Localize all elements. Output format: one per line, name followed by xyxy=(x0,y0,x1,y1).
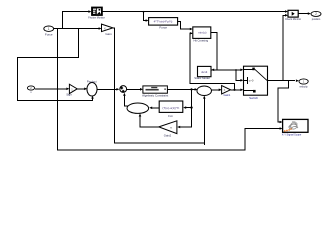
svg-text:1: 1 xyxy=(48,27,50,31)
wire to switch input 1 xyxy=(217,69,241,71)
arrowhead up into product P3 bottom xyxy=(139,114,142,117)
svg-text:Switch: Switch xyxy=(249,96,258,100)
wire top line scope-out to monitor xyxy=(102,11,286,13)
gain G4 triangle flipped xyxy=(159,121,177,138)
wire function F1 out down xyxy=(211,33,217,70)
product P2 ellipse xyxy=(197,86,212,96)
svg-text:Gain1: Gain1 xyxy=(223,93,230,97)
wire tap into Fcn right side xyxy=(186,107,192,109)
block Fcn xyxy=(159,101,183,118)
wire product P3 to sum S1 bottom xyxy=(124,95,128,106)
arrowhead into product P1 xyxy=(84,88,87,91)
svg-text:Force: Force xyxy=(159,26,167,30)
wire product P1 to sum S1 xyxy=(97,88,117,90)
wire product P2 to gain G3 xyxy=(212,89,220,91)
arrowhead into Out2 oval xyxy=(308,12,311,15)
arrowhead into switch input 1 xyxy=(240,69,243,72)
wire branch down to switch control input xyxy=(236,70,241,81)
arrowhead into switch input 3 xyxy=(240,89,243,92)
svg-text:Check Monitor: Check Monitor xyxy=(285,18,301,21)
arrowhead into gain G3 xyxy=(219,89,222,92)
gain G2 triangle xyxy=(66,84,77,96)
arrowhead into switch control input xyxy=(240,79,243,82)
svg-text:v: v xyxy=(30,91,32,94)
wire gain G4 out to product P3 bottom xyxy=(140,116,159,127)
port In1 oval xyxy=(44,26,54,36)
svg-text:Sign: Sign xyxy=(66,93,72,97)
arrowhead into gain G2 xyxy=(66,88,69,91)
arrowhead left into gain G4 xyxy=(177,126,180,129)
svg-text:position: position xyxy=(312,18,321,21)
wire switch out to Out1 xyxy=(268,80,296,82)
wire gain G2 to product P1 xyxy=(77,88,84,90)
svg-text:u>0: u>0 xyxy=(249,79,254,83)
svg-text:Fcn: Fcn xyxy=(168,114,173,118)
svg-text:velocity: velocity xyxy=(299,86,308,89)
svg-text:Friction Monitor: Friction Monitor xyxy=(88,17,105,20)
junction dot main line branch down xyxy=(190,88,192,90)
svg-text:Gain2: Gain2 xyxy=(164,133,172,137)
wire branch In1 to product P1 bottom xyxy=(18,29,93,101)
block memory inside subsystem xyxy=(194,66,217,80)
wire Fcn out to product P3 xyxy=(152,107,160,109)
arrowhead left into Fcn right xyxy=(183,106,186,109)
arrowhead into algebraic constraint xyxy=(140,88,143,91)
wire source block out to function F1 input 1 xyxy=(178,22,191,30)
svg-text:4*T*sin(4*pi*t): 4*T*sin(4*pi*t) xyxy=(154,20,173,24)
svg-text:K: K xyxy=(104,26,106,30)
block switch xyxy=(244,66,268,100)
arrowhead left into product P3 right xyxy=(149,107,152,110)
arrowhead into monitor input 2 xyxy=(285,14,288,17)
block scope (bars icon) xyxy=(88,7,105,19)
port In2 oval xyxy=(27,86,34,94)
wire gain G3 to switch input 3 xyxy=(231,89,241,91)
svg-text:Gain: Gain xyxy=(105,32,112,36)
svg-text:Product: Product xyxy=(87,79,97,83)
gain G1 triangle xyxy=(102,24,113,36)
svg-text:Hit Crossing: Hit Crossing xyxy=(193,38,208,42)
svg-text:Force: Force xyxy=(45,32,53,36)
arrowhead into source block xyxy=(146,19,149,22)
wire branch down into source block xyxy=(144,12,147,21)
wire monitor out to Out2 xyxy=(298,13,308,15)
wire into scope block xyxy=(63,12,89,29)
product P1 ellipse xyxy=(87,79,97,96)
wire branch down to gain G4 input xyxy=(180,89,192,127)
sum S1 circle xyxy=(120,86,127,93)
arrowhead up into sum S1 bottom xyxy=(123,93,126,96)
arrowhead into scope block xyxy=(88,10,91,13)
wire branch up to monitor input 2 xyxy=(283,15,286,80)
product P3 ellipse xyxy=(127,103,149,113)
arrowhead into sum S1 xyxy=(116,88,119,91)
arrowhead into Out1 oval xyxy=(296,79,299,82)
block XY scope xyxy=(282,119,308,136)
wire branch down to XY scope input 1 xyxy=(278,81,289,123)
junction dot Fcn tap xyxy=(190,106,192,108)
svg-text:Static Model: Static Model xyxy=(194,76,210,80)
port Out2 oval xyxy=(311,11,321,21)
svg-text:Algebraic Constraint: Algebraic Constraint xyxy=(142,94,168,98)
arrowhead into XY scope input 1 xyxy=(280,121,283,124)
arrowhead into XY scope input 2 xyxy=(280,127,283,130)
wire sum S1 to algebraic constraint xyxy=(127,88,141,90)
wire gain G3 feedback loop to function F1 input 2 xyxy=(190,33,235,90)
junction dot gain G3 out branch xyxy=(233,89,235,91)
arrowhead into function F1 input 1 xyxy=(190,28,193,31)
wire In2 to gain G2 xyxy=(35,88,67,90)
wire In1 to gain G1 xyxy=(54,28,99,30)
gain G3 triangle xyxy=(222,86,231,97)
svg-text:(T(u)-u(1))*K: (T(u)-u(1))*K xyxy=(162,106,179,110)
arrowhead up into product P1 bottom xyxy=(91,96,94,99)
block source expression xyxy=(149,18,178,30)
block monitor (play icon) xyxy=(285,10,301,21)
wire gain G1 out to product P2 bottom xyxy=(113,28,204,145)
arrowhead into gain G1 xyxy=(99,27,102,30)
junction dot top line branch xyxy=(143,11,145,13)
block function F1 xyxy=(193,27,211,43)
arrowhead into product P2 left xyxy=(195,88,198,91)
svg-text:2: 2 xyxy=(315,12,317,16)
block algebraic constraint xyxy=(142,86,168,98)
port Out1 oval xyxy=(299,79,308,89)
arrowhead into function F1 input 2 xyxy=(190,32,193,35)
svg-text:du/dt: du/dt xyxy=(201,70,207,74)
svg-text:X-Y Signal Scope: X-Y Signal Scope xyxy=(282,134,302,137)
junction dot switch control branch xyxy=(235,69,237,71)
wire algebraic constraint to product P2 xyxy=(167,88,195,90)
wire branch In1 down to XY scope input 2 xyxy=(58,29,281,151)
arrowhead up into product P2 bottom xyxy=(203,96,206,99)
svg-text:min(u): min(u) xyxy=(198,30,207,34)
arrowhead into monitor input 1 xyxy=(285,10,288,13)
